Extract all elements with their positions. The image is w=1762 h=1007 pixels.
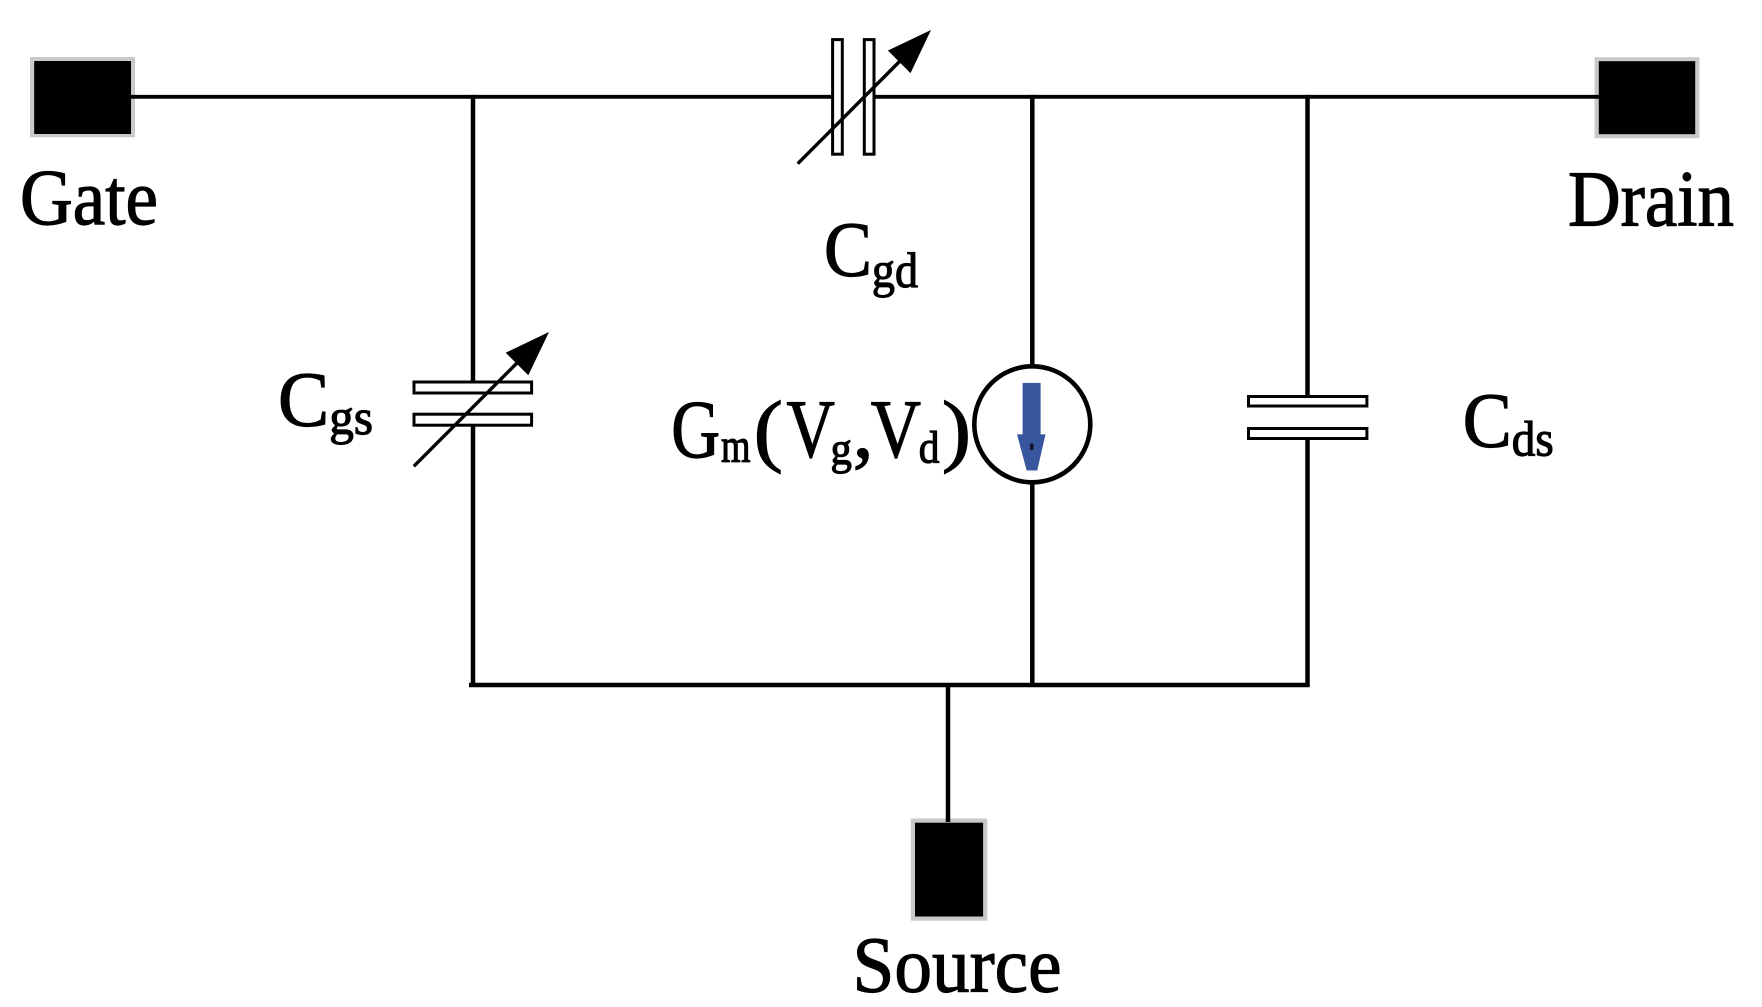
terminal Gate (black pad) — [30, 57, 135, 137]
wire right vertical upper — [1305, 95, 1310, 396]
wire top: Cgd to drain — [875, 95, 1602, 99]
svg-text:Drain: Drain — [1568, 157, 1734, 244]
capacitor Cgd (variable, vertical plates) — [833, 40, 874, 155]
svg-text:G: G — [671, 384, 720, 475]
wire current-source vertical upper — [1030, 95, 1035, 368]
wire source stub — [946, 685, 951, 822]
capacitor Cgs (variable, horizontal plates) — [414, 382, 532, 425]
label Gm(Vg,Vd) — [671, 383, 971, 476]
terminal Drain (black pad) — [1595, 57, 1700, 138]
wire right vertical lower — [1305, 440, 1310, 687]
svg-text:V: V — [787, 384, 835, 475]
arrow of variable capacitor Cgs — [414, 332, 549, 466]
wire bottom horizontal — [469, 683, 1310, 688]
capacitor Cds (horizontal plates) — [1249, 397, 1367, 439]
svg-text:m: m — [721, 419, 751, 472]
svg-text:): ) — [942, 386, 971, 475]
wire left vertical lower — [471, 426, 476, 687]
arrow of variable capacitor Cgd — [798, 30, 931, 164]
svg-text:g: g — [831, 423, 852, 475]
wire top: gate to Cgd — [128, 95, 832, 99]
wire current-source vertical lower — [1030, 481, 1035, 687]
svg-text:d: d — [919, 422, 940, 472]
svg-text:V: V — [871, 383, 921, 475]
svg-text:Gate: Gate — [20, 155, 158, 242]
current source Gm circle — [974, 366, 1090, 482]
svg-text:(: ( — [754, 386, 783, 475]
current source blue arrow — [1017, 383, 1046, 471]
terminal Source (black pad) — [911, 819, 988, 921]
wire left vertical upper — [471, 95, 476, 382]
svg-text:Source: Source — [853, 923, 1062, 1007]
